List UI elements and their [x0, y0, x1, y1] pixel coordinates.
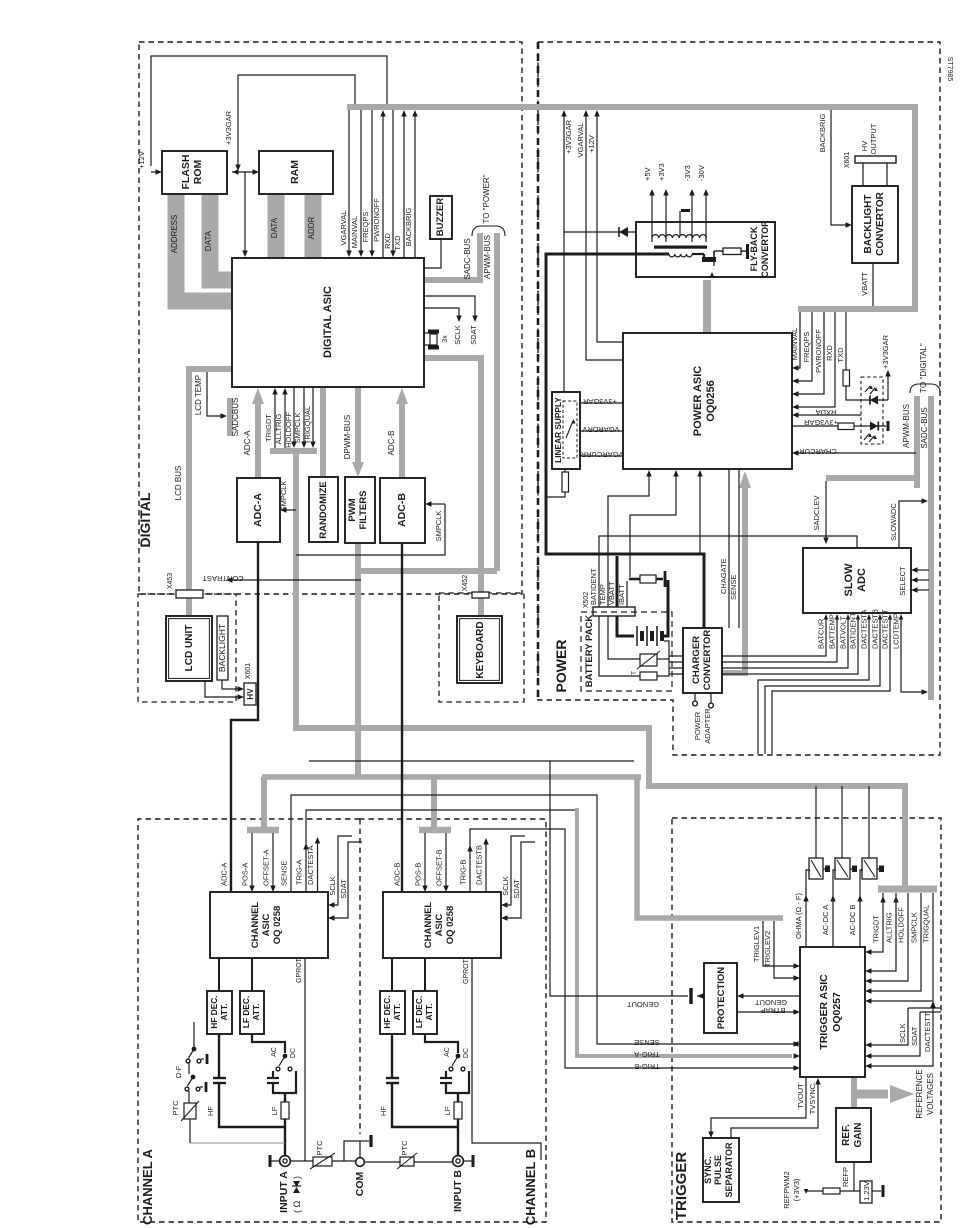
ac/dc relay A: [283, 1054, 286, 1057]
bus channel B bar: [419, 827, 451, 834]
svg-text:1.23V: 1.23V: [862, 1181, 871, 1201]
wire hf pin B: [391, 958, 393, 991]
region box DIGITAL: [139, 42, 522, 594]
svg-text:+12V: +12V: [587, 135, 596, 153]
svg-text:ADC-A: ADC-A: [220, 863, 229, 886]
bus PWM to APWM branch: [358, 568, 497, 574]
svg-text:GAIN: GAIN: [853, 1123, 864, 1148]
svg-text:TRIGGER: TRIGGER: [673, 1152, 690, 1221]
svg-text:DIGITAL ASIC: DIGITAL ASIC: [322, 286, 334, 358]
wire SENSE charger: [738, 469, 740, 628]
svg-text:TEMP: TEMP: [598, 584, 607, 605]
svg-text:TRIG-A: TRIG-A: [295, 860, 304, 885]
svg-text:+3V3GAR: +3V3GAR: [224, 110, 233, 145]
svg-text:BUZZER: BUZZER: [435, 198, 446, 237]
wire CHAGATE: [728, 469, 730, 628]
bus DATA ram: [268, 194, 285, 257]
svg-text:LINEAR SUPPLY: LINEAR SUPPLY: [553, 397, 563, 463]
svg-text:BATTERY PACK: BATTERY PACK: [584, 615, 595, 688]
svg-text:LF: LF: [443, 1106, 452, 1115]
wire PWRONOFF power: [797, 312, 824, 394]
bus LCD-BUS: [189, 369, 231, 617]
svg-text:SADCBUS: SADCBUS: [231, 398, 240, 437]
svg-text:ASIC: ASIC: [434, 914, 445, 937]
svg-text:ATT.: ATT.: [251, 1004, 261, 1021]
svg-text:INPUT A: INPUT A: [278, 1171, 290, 1213]
bus flyback to power asic: [703, 280, 711, 333]
svg-text:OHMA (Ω - F): OHMA (Ω - F): [794, 892, 803, 939]
svg-text:SMPCLK: SMPCLK: [434, 511, 443, 542]
diode flyback input: [564, 231, 636, 233]
svg-text:DACTESTT: DACTESTT: [881, 609, 890, 649]
svg-text:SADC-BUS: SADC-BUS: [920, 407, 929, 448]
svg-text:BACKLIGHT: BACKLIGHT: [217, 624, 227, 672]
svg-text:PWRONOFF: PWRONOFF: [814, 329, 823, 373]
wire RXDA: [797, 414, 861, 416]
bus DPWM-BUS arrow: [355, 387, 361, 462]
svg-text:CHANNEL: CHANNEL: [423, 902, 434, 949]
region box CHANNEL B: [360, 819, 546, 1222]
wire VBATT backlight: [872, 263, 874, 306]
svg-text:VGARDRV: VGARDRV: [583, 425, 620, 434]
svg-text:ADC-B: ADC-B: [396, 493, 408, 527]
svg-text:CONTRAST: CONTRAST: [202, 574, 244, 583]
svg-text:DIGITAL: DIGITAL: [137, 492, 153, 547]
svg-text:DC: DC: [290, 1048, 297, 1058]
svg-text:SCLK: SCLK: [501, 876, 510, 896]
svg-text:MAINVAL: MAINVAL: [790, 328, 799, 360]
wire BATIDENT upper: [599, 536, 857, 607]
svg-text:OFFSET-B: OFFSET-B: [435, 849, 444, 886]
wire SCLK digital: [424, 308, 459, 317]
svg-text:X601: X601: [844, 152, 851, 168]
wire -3V3 out: [691, 193, 693, 242]
region box LCD unit compartment: [138, 594, 236, 702]
svg-text:PWM: PWM: [347, 498, 358, 521]
svg-text:ADC-A: ADC-A: [243, 430, 252, 456]
wire +3V3GAR power: [563, 112, 565, 392]
wires x601 to backlight conv: [862, 163, 864, 186]
svg-text:POS-B: POS-B: [414, 863, 423, 886]
svg-text:DPWM-BUS: DPWM-BUS: [343, 415, 352, 459]
svg-text:+3V3GAR: +3V3GAR: [803, 418, 838, 427]
svg-text:GENOUT: GENOUT: [627, 1000, 660, 1009]
lf resistor B: [457, 1093, 459, 1102]
svg-text:BACKBRIG: BACKBRIG: [404, 207, 413, 246]
input A connector: [280, 1156, 291, 1167]
svg-text:VGARVAL: VGARVAL: [576, 123, 585, 158]
lf dec att B box: [413, 991, 437, 1034]
svg-text:OQ 0258: OQ 0258: [445, 906, 456, 945]
svg-text:HF DEC.: HF DEC.: [209, 995, 219, 1028]
svg-text:HF: HF: [206, 1106, 215, 1116]
wire VGARVAL: [348, 110, 350, 252]
svg-text:-30V: -30V: [697, 165, 706, 181]
svg-text:SDAT: SDAT: [339, 879, 348, 899]
power asic box: [623, 333, 792, 469]
svg-text:PULSE: PULSE: [713, 1155, 723, 1185]
bus reference voltages: [851, 1077, 857, 1108]
wire TRIG-A route: [306, 810, 575, 892]
wire RXD power: [797, 312, 835, 407]
lf resistor A: [284, 1093, 286, 1102]
wire IBATT stub: [626, 581, 628, 607]
wire DACTESTA: [758, 617, 869, 754]
bus ADC-B arrow: [399, 403, 405, 478]
region box CHANNEL A: [138, 819, 361, 1222]
svg-text:BACKBRIG: BACKBRIG: [818, 113, 827, 152]
svg-text:+3V3: +3V3: [657, 163, 666, 181]
wire DACTESTT trigger: [870, 1005, 933, 1066]
charger convertor box: [683, 628, 722, 693]
wire +12V power: [597, 112, 623, 342]
svg-text:GENOUT: GENOUT: [755, 998, 788, 1007]
wire OHMA: [806, 870, 810, 947]
COM connector: [356, 1158, 365, 1167]
backlight convertor box: [852, 186, 898, 263]
svg-text:POS-A: POS-A: [241, 863, 250, 886]
wire TXD power resistor: [845, 312, 847, 370]
lf dec att A box: [240, 991, 264, 1034]
svg-text:BATIDENT: BATIDENT: [589, 568, 598, 605]
svg-text:CONVERTOR: CONVERTOR: [760, 220, 770, 278]
wire REFPWM2: [804, 1189, 809, 1194]
svg-text:LF DEC.: LF DEC.: [414, 996, 424, 1028]
svg-text:HF DEC.: HF DEC.: [382, 995, 392, 1028]
thermistor: [608, 616, 640, 659]
svg-text:TRIGLEV2: TRIGLEV2: [763, 931, 772, 967]
svg-text:BTRAP: BTRAP: [760, 1006, 785, 1015]
svg-text:MAINVAL: MAINVAL: [350, 216, 359, 248]
svg-text:ST7985: ST7985: [946, 57, 953, 82]
svg-text:DACTESTB: DACTESTB: [475, 845, 484, 885]
wires backlight to hv: [222, 680, 239, 689]
adc-b box: [380, 478, 425, 543]
svg-text:HF: HF: [379, 1106, 388, 1116]
svg-text:REF.: REF.: [841, 1124, 852, 1146]
transformer primary winding: [669, 254, 692, 257]
wire +3V3 out: [665, 193, 667, 242]
wire VBATT into pack: [616, 556, 619, 607]
wire BATIDENT: [669, 617, 858, 674]
trigger asic box: [800, 947, 865, 1077]
wire TVOUT: [711, 1077, 806, 1133]
svg-text:SMPCLK: SMPCLK: [279, 481, 288, 512]
bus channel A bar: [247, 827, 279, 834]
svg-text:RXDA: RXDA: [816, 408, 837, 417]
svg-text:CHARGER: CHARGER: [691, 636, 702, 684]
wire TRIGQUAL: [312, 387, 314, 443]
wire +12V: [151, 56, 387, 166]
svg-text:FREQPS: FREQPS: [802, 332, 811, 363]
svg-text:ADAPTER: ADAPTER: [703, 708, 712, 744]
svg-text:+3V3GAR: +3V3GAR: [564, 119, 573, 154]
ohm relay 3: [862, 858, 877, 879]
svg-text:TRIG-A: TRIG-A: [634, 1050, 659, 1059]
wire SCLK A: [333, 836, 352, 905]
svg-text:ASIC: ASIC: [261, 914, 272, 937]
svg-text:ALLTRIG: ALLTRIG: [885, 912, 894, 943]
flyback convertor box: [636, 222, 775, 277]
adc-a box: [237, 478, 280, 542]
ohm relay 2: [835, 858, 850, 879]
svg-text:SENSE: SENSE: [280, 861, 289, 886]
svg-text:FILTERS: FILTERS: [358, 491, 369, 530]
wire BTRAP: [737, 1011, 795, 1013]
wire link to asic: [244, 172, 246, 252]
lf link A: [252, 1034, 285, 1053]
svg-text:( Ω: ( Ω: [292, 1201, 302, 1213]
ram box: [259, 151, 333, 194]
optocoupler box: [861, 377, 883, 444]
wire BATVOLT: [669, 617, 848, 668]
resistor 3x pullup: [424, 332, 431, 334]
linear supply regulator: [563, 401, 577, 458]
battery right lead: [662, 580, 668, 636]
connector X452: [472, 592, 489, 598]
svg-text:+3V3GAR: +3V3GAR: [881, 334, 890, 369]
svg-text:SCLK: SCLK: [328, 876, 337, 896]
bus SADCBUS stub: [227, 398, 233, 436]
POWER left border emphasized: [537, 42, 540, 700]
svg-text:BACKLIGHT: BACKLIGHT: [863, 195, 874, 254]
input B connector: [453, 1156, 464, 1167]
battery pack dashed box: [581, 612, 672, 691]
svg-text:VGARVAL: VGARVAL: [339, 211, 348, 246]
wire BACKBRIG power: [831, 110, 846, 225]
svg-text:REFPWM2: REFPWM2: [782, 1171, 791, 1209]
svg-text:TRIG-B: TRIG-B: [459, 860, 468, 885]
svg-text:SLOW: SLOW: [843, 563, 855, 597]
svg-text:OQ0256: OQ0256: [705, 380, 717, 422]
svg-text:HOLDOFF: HOLDOFF: [284, 412, 293, 448]
svg-text:RXD: RXD: [825, 345, 834, 361]
svg-text:REFERENCE: REFERENCE: [915, 1069, 924, 1118]
opto emit arrows 2: [864, 434, 869, 440]
wire GENOUT long: [309, 760, 634, 762]
opto led 1: [846, 386, 888, 400]
svg-text:BATCUR: BATCUR: [817, 618, 826, 649]
bus keyboard serial: [424, 358, 481, 617]
wire TRIGDT: [274, 392, 276, 448]
svg-text:POWER ASIC: POWER ASIC: [692, 366, 704, 437]
svg-text:X601: X601: [245, 663, 252, 679]
wire SCLK trigger: [908, 1007, 941, 1009]
wire FREQPS: [371, 110, 373, 252]
1.23V ground: [872, 1190, 881, 1192]
bus offsets drop channel A: [261, 777, 267, 828]
svg-text:ALLTRIG: ALLTRIG: [274, 413, 283, 444]
wire +3V3GAR digital: [238, 75, 355, 166]
svg-text:OFFSET-A: OFFSET-A: [262, 849, 271, 886]
svg-text:HV: HV: [860, 141, 869, 151]
wire VBATT trunk: [546, 254, 704, 628]
bus charger link: [722, 670, 748, 676]
region box TRIGGER: [672, 818, 941, 1222]
svg-text:AC-DC A: AC-DC A: [821, 905, 830, 935]
svg-text:SELECT: SELECT: [898, 566, 907, 596]
bus trigger signals to TRIGGER region: [296, 451, 905, 888]
flyback output termination: [741, 250, 747, 252]
svg-text:-3V3: -3V3: [683, 165, 692, 181]
wire RXD: [392, 110, 394, 252]
wire +5V out: [651, 193, 653, 242]
wire BATTEMP: [669, 617, 837, 662]
svg-text:KEYBOARD: KEYBOARD: [475, 621, 486, 678]
bus ADC-A arrow: [255, 403, 261, 478]
wire lf pin B: [424, 958, 426, 991]
label TO DIGITAL brace: [910, 384, 940, 393]
wire SMPCLK asic: [303, 387, 305, 443]
svg-text:ADC-A: ADC-A: [252, 493, 264, 527]
svg-text:TRIGLEV1: TRIGLEV1: [752, 926, 761, 962]
flyback ground stub: [679, 211, 681, 236]
svg-text:TRIGDT: TRIGDT: [264, 414, 273, 442]
svg-text:APWM-BUS: APWM-BUS: [902, 404, 911, 448]
wire TVSYNC: [731, 1082, 818, 1138]
svg-text:VBATT: VBATT: [607, 581, 616, 605]
bus charger to power asic arrow: [742, 487, 748, 673]
svg-text:PTC: PTC: [400, 1140, 409, 1156]
wire opto1 vcc: [887, 373, 889, 400]
svg-text:TVSYNC.: TVSYNC.: [808, 1082, 817, 1115]
omega-F switch chain: [193, 1022, 195, 1047]
wire +3V3GAR linear out: [580, 402, 623, 404]
svg-text:TXD: TXD: [836, 347, 845, 363]
svg-text:TO "DIGITAL": TO "DIGITAL": [919, 343, 928, 393]
svg-text:FREQPS: FREQPS: [361, 212, 370, 243]
bus analog offsets H2: [262, 774, 641, 780]
bus top supply rail: [347, 107, 915, 309]
svg-text:DACTESTA: DACTESTA: [306, 846, 315, 885]
svg-text:OQ 0258: OQ 0258: [272, 906, 283, 945]
svg-text:): ): [292, 1176, 302, 1179]
wire POS-A: [251, 833, 253, 887]
wire SDAT trigger: [920, 1011, 941, 1013]
wires trigger ctrl drops: [870, 893, 883, 952]
svg-text:CHAGATE: CHAGATE: [719, 558, 728, 594]
hf coupling cap A: [218, 1034, 220, 1077]
ref gain box: [836, 1108, 871, 1162]
wire flash-ram link: [232, 171, 254, 173]
connector X601 bar: [855, 156, 896, 163]
arrows trigger left inputs: [794, 1053, 801, 1059]
bus offsets to trigger V2: [637, 775, 783, 918]
svg-text:ADC-B: ADC-B: [393, 863, 402, 886]
ptc channel A: [188, 1091, 190, 1103]
svg-text:SMPCLK: SMPCLK: [293, 413, 302, 444]
svg-text:FLASH: FLASH: [180, 155, 192, 190]
region box POWER: [538, 42, 940, 755]
connector X502: [593, 607, 635, 616]
svg-text:VOLTAGES: VOLTAGES: [926, 1073, 935, 1115]
wire HOLDOFF: [293, 387, 295, 443]
hf dec att B box: [380, 991, 405, 1034]
label input A symbols: [292, 1176, 302, 1213]
lcd unit box: [166, 616, 212, 681]
transformer core: [654, 246, 707, 249]
flyback resistor: [713, 251, 715, 258]
svg-text:HV: HV: [246, 688, 255, 700]
bus trigger-signal stub: [270, 448, 317, 454]
svg-text:BATVOLT: BATVOLT: [839, 616, 848, 649]
wire SADCLEV: [825, 481, 827, 539]
wire REFP: [853, 1162, 855, 1191]
power adapter terminals: [694, 693, 696, 701]
svg-text:AC-DC B: AC-DC B: [848, 905, 857, 936]
wire BATCUR: [669, 617, 826, 656]
keyboard box: [457, 616, 502, 683]
svg-text:GPROT: GPROT: [296, 957, 303, 983]
svg-text:GPROT: GPROT: [463, 958, 470, 984]
wire DACTESTT: [772, 617, 890, 754]
wire POS-B: [424, 833, 426, 887]
svg-text:LF DEC.: LF DEC.: [241, 996, 251, 1028]
svg-text:+12V: +12V: [137, 151, 146, 169]
svg-text:BATIDENT: BATIDENT: [849, 612, 858, 649]
buzzer box: [430, 196, 452, 239]
lf link B: [425, 1034, 458, 1053]
svg-text:AC: AC: [271, 1047, 278, 1057]
label TO POWER brace: [472, 226, 505, 236]
svg-text:ATT.: ATT.: [219, 1004, 229, 1021]
opto emit arrows 1: [865, 386, 870, 392]
opto led 2: [854, 425, 886, 427]
svg-text:FLY-BACK: FLY-BACK: [749, 226, 759, 271]
ac/dc relay B: [456, 1054, 459, 1057]
svg-text:TRIGDT: TRIGDT: [872, 915, 881, 943]
svg-text:APWM-BUS: APWM-BUS: [483, 235, 492, 279]
svg-text:SLOWADC: SLOWADC: [889, 503, 898, 541]
svg-text:RAM: RAM: [289, 160, 301, 184]
wire BACKBRIG digital: [414, 115, 416, 258]
svg-text:DC: DC: [463, 1048, 470, 1058]
svg-text:ADC-B: ADC-B: [387, 431, 396, 456]
wire TRIGLEV2: [774, 921, 796, 978]
wire AC-DC B: [860, 870, 863, 947]
svg-text:DATA: DATA: [204, 230, 213, 251]
svg-text:OUTPUT: OUTPUT: [869, 123, 878, 154]
bus APWM-BUS to power: [494, 233, 500, 571]
wire TRIGLEV1: [763, 921, 796, 966]
svg-text:SADC-BUS: SADC-BUS: [463, 238, 472, 279]
svg-text:AC: AC: [444, 1047, 451, 1057]
svg-text:SDAT: SDAT: [469, 325, 478, 345]
hf coupling cap B: [391, 1034, 393, 1077]
svg-text:SDAT: SDAT: [910, 1026, 919, 1046]
svg-text:CHANNEL: CHANNEL: [250, 902, 261, 949]
svg-text:COM: COM: [354, 1172, 366, 1197]
svg-text:SYNC.: SYNC.: [703, 1156, 713, 1184]
channel asic B box: [383, 892, 501, 958]
bus SADCLEV branch: [826, 475, 918, 481]
digital asic box: [232, 258, 424, 387]
svg-text:SCLK: SCLK: [453, 325, 462, 345]
wire VGARCURR: [580, 455, 623, 457]
wire VGARDRV: [580, 430, 623, 432]
svg-text:SEPARATOR: SEPARATOR: [724, 1142, 734, 1198]
protection box: [704, 963, 737, 1033]
region box KEYBOARD compartment: [439, 593, 524, 702]
svg-text:CHANNEL A: CHANNEL A: [140, 1148, 155, 1224]
transformer secondary winding: [652, 235, 706, 238]
svg-text:POWER: POWER: [553, 640, 569, 693]
svg-text:TVOUT: TVOUT: [796, 1083, 805, 1109]
svg-text:VBATT: VBATT: [860, 272, 869, 296]
wire LCD TEMP: [207, 372, 222, 416]
wire GENOUT protection: [742, 995, 800, 997]
wire SMPCLK to adc-b: [296, 504, 445, 555]
